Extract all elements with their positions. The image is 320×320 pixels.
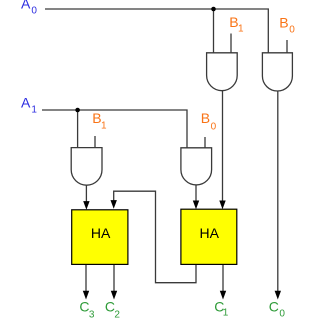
svg-text:HA: HA — [199, 225, 219, 241]
svg-text:HA: HA — [91, 225, 111, 241]
